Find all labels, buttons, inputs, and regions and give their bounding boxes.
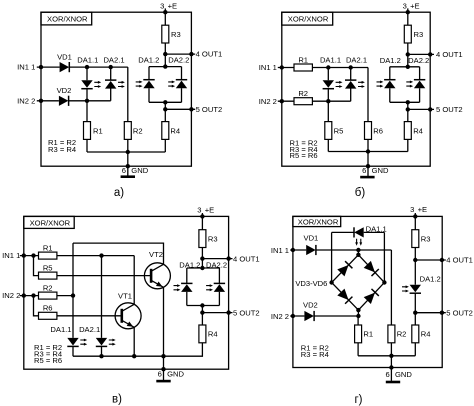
svg-text:5 OUT2: 5 OUT2 — [436, 105, 463, 114]
svg-text:R4: R4 — [208, 330, 218, 339]
wire bridge edges g — [332, 255, 385, 310]
svg-text:GND: GND — [372, 166, 389, 175]
photodiode DA1.2 — [143, 80, 154, 89]
wire DA1.1 right drop g — [383, 232, 385, 282]
svg-text:DA1.2: DA1.2 — [420, 275, 441, 284]
svg-text:R3: R3 — [171, 30, 181, 39]
svg-text:VD1: VD1 — [304, 234, 319, 243]
node dots g — [413, 214, 417, 218]
svg-text:IN2 2: IN2 2 — [2, 291, 20, 300]
diode DA2.1 — [105, 80, 116, 89]
wire R6 branch from IN2 v — [34, 296, 39, 316]
resistor R3 — [162, 25, 169, 43]
wire OUT1 row pin 4 — [165, 53, 195, 55]
wire IN1 row — [37, 66, 128, 68]
wire ground bus b — [328, 151, 408, 153]
wire R1 from VD2 row g — [357, 316, 359, 325]
wire R2 drop g — [390, 250, 392, 325]
wire VT2 collector top link v — [73, 243, 164, 264]
wire bus to GND pin 6 v — [163, 356, 165, 380]
wire bus to GND pin 6 — [127, 152, 129, 176]
arrows DA2.2 v — [206, 284, 213, 291]
svg-text:XOR/XNOR: XOR/XNOR — [298, 217, 339, 226]
wire R4 to bus — [164, 139, 166, 152]
svg-text:IN1 1: IN1 1 — [17, 63, 35, 72]
wire R4 to bus g — [414, 343, 416, 356]
wire OUT1 node to group top v — [201, 259, 203, 268]
svg-text:DA1.1: DA1.1 — [320, 56, 341, 65]
photodiode DA2.2 v — [214, 283, 225, 292]
node dots v — [200, 214, 204, 218]
svg-text:R3 = R4: R3 = R4 — [48, 145, 76, 154]
svg-text:DA2.1: DA2.1 — [79, 325, 100, 334]
svg-text:IN1 1: IN1 1 — [2, 251, 20, 260]
wire OUT1 row pin 4 v — [202, 258, 232, 260]
diode VD2 — [59, 96, 69, 106]
node dots a — [163, 10, 167, 14]
svg-text:VD1: VD1 — [57, 53, 72, 62]
bridge diode VD6 — [364, 289, 379, 304]
wire bridge bottom stub g — [357, 310, 359, 316]
svg-text:R2: R2 — [397, 330, 407, 339]
wire R2 from IN1 row — [127, 67, 129, 122]
wire OUT1 row pin 4 b — [408, 53, 434, 55]
wire DA1.1 left drop g — [331, 232, 333, 282]
svg-text:4 OUT1: 4 OUT1 — [233, 254, 260, 263]
svg-text:R5: R5 — [334, 126, 344, 135]
svg-text:DA2.2: DA2.2 — [168, 55, 189, 64]
wire bus to GND pin 6 b — [367, 152, 369, 177]
resistor R1 v — [39, 252, 57, 259]
wire DA1.2 branch bottom — [148, 88, 150, 102]
svg-text:R5 = R6: R5 = R6 — [290, 151, 318, 160]
wire IN2 row — [37, 100, 111, 102]
wire R3 to OUT1 node g — [414, 248, 416, 261]
resistor R4 v — [199, 325, 206, 343]
wire DA2.1 column v — [101, 256, 103, 357]
wire IN2 row with VD2 g — [290, 315, 358, 317]
resistor R6 b — [365, 122, 372, 140]
wire OUT2 row pin 5 g — [415, 312, 446, 314]
LED DA2.1 v — [96, 338, 107, 347]
wire OUT2 to R4 v — [201, 313, 203, 325]
resistor R3 v — [199, 230, 206, 248]
wire R5 to bus b — [327, 139, 329, 151]
LED DA1.1 b — [323, 80, 334, 89]
arrows DA1.1 b — [336, 81, 343, 88]
LED DA1.1 v — [67, 338, 78, 347]
svg-text:R4: R4 — [170, 126, 180, 135]
wire +E pin 3 stub — [164, 8, 166, 12]
svg-text:6: 6 — [385, 370, 389, 379]
svg-text:3: 3 — [410, 205, 414, 214]
svg-text:DA1.1: DA1.1 — [366, 224, 387, 233]
wire DA1.2 branch b — [389, 67, 391, 103]
wire DA1.2 to OUT2 g — [414, 293, 416, 313]
arrows DA2.2 — [168, 81, 175, 88]
wire DA2.2 branch v — [218, 268, 220, 306]
wire ground bus g — [358, 355, 415, 357]
bridge diode VD5 — [337, 289, 352, 304]
svg-text:R1: R1 — [43, 244, 53, 253]
arrows DA2.1 — [118, 81, 125, 88]
svg-text:GND: GND — [395, 370, 412, 379]
svg-text:R3 = R4: R3 = R4 — [301, 350, 329, 359]
wire OUT1 node to group top b — [407, 54, 409, 66]
XOR/XNOR label box g — [293, 216, 341, 226]
wire group bottom bar — [149, 101, 182, 103]
svg-text:+E: +E — [410, 1, 420, 10]
wire OUT2 row pin 5 b — [408, 108, 434, 110]
svg-text:R6: R6 — [373, 126, 383, 135]
svg-text:XOR/XNOR: XOR/XNOR — [288, 15, 329, 24]
svg-text:R2: R2 — [43, 284, 53, 293]
ground symbol b — [360, 176, 374, 179]
svg-text:3: 3 — [403, 1, 407, 10]
svg-text:VD3-VD6: VD3-VD6 — [295, 279, 327, 288]
svg-text:VT2: VT2 — [149, 250, 163, 259]
resistor R2 v — [39, 292, 57, 299]
wire R4 to bus v — [164, 343, 203, 356]
diode VD1 g — [306, 245, 316, 255]
wire OUT2 row pin 5 — [165, 108, 195, 110]
IC outline box U-b — [282, 12, 430, 166]
svg-text:4 OUT1: 4 OUT1 — [446, 256, 473, 265]
wire OUT1 to DA1.2 g — [414, 260, 416, 285]
wire VT1 collector to R1 row v — [133, 256, 135, 305]
svg-text:4 OUT1: 4 OUT1 — [436, 50, 463, 59]
resistor R4 g — [412, 325, 419, 343]
arrows DA1.2 b — [377, 81, 384, 88]
svg-text:R3: R3 — [208, 234, 218, 243]
wire group bottom bar v — [187, 305, 220, 307]
resistor R2 b — [294, 98, 312, 105]
ground symbol — [121, 175, 135, 178]
svg-text:VT1: VT1 — [118, 292, 132, 301]
node dots b — [406, 10, 410, 14]
svg-text:IN2 2: IN2 2 — [17, 96, 35, 105]
svg-text:+E: +E — [418, 205, 428, 214]
wire R4 to bus b — [407, 139, 409, 151]
svg-text:3: 3 — [197, 205, 201, 214]
svg-text:DA1.1: DA1.1 — [77, 55, 98, 64]
ground symbol g — [386, 381, 400, 384]
bridge diode VD3 — [337, 261, 352, 276]
resistor R3 b — [404, 25, 411, 43]
svg-text:4 OUT1: 4 OUT1 — [196, 50, 223, 59]
svg-text:DA1.2: DA1.2 — [380, 56, 401, 65]
IC outline box U-g — [293, 216, 442, 367]
wire R6 to VT1 base v — [57, 315, 122, 317]
wire R6 from IN1 row b — [367, 68, 369, 122]
svg-text:DA2.2: DA2.2 — [408, 56, 429, 65]
resistor R2 g — [388, 325, 395, 343]
ground symbol v — [156, 380, 170, 383]
svg-text:R3: R3 — [414, 30, 424, 39]
wire DA1.1 branch b — [327, 68, 329, 122]
wire bus to GND pin 6 g — [390, 356, 392, 381]
wire DA2.2 branch b — [419, 67, 421, 103]
svg-text:GND: GND — [167, 370, 184, 379]
wire group to OUT2 node — [164, 102, 166, 109]
wire +E pin 3 stub b — [407, 8, 409, 25]
svg-text:R4: R4 — [421, 330, 431, 339]
IC outline box U-a — [41, 12, 191, 166]
arrows DA2.2 b — [406, 81, 413, 88]
photodiode DA2.2 b — [414, 80, 425, 89]
XOR/XNOR label box — [41, 12, 92, 25]
resistor R3 g — [412, 230, 419, 248]
wire DA2.1 branch b — [350, 68, 352, 102]
svg-text:6: 6 — [122, 166, 126, 175]
wire IN2 row b — [278, 100, 351, 102]
wire R5 to VT2 base v — [57, 275, 151, 277]
wire OUT2 row pin 5 v — [202, 312, 232, 314]
diode VD2 g — [304, 311, 314, 321]
resistor R4 b — [404, 122, 411, 140]
svg-text:5 OUT2: 5 OUT2 — [446, 308, 473, 317]
wire IN2 row v — [20, 295, 73, 297]
wire group bottom bar b — [390, 101, 420, 103]
wire +E pin 3 stub g — [414, 213, 416, 230]
svg-text:IN1 1: IN1 1 — [259, 63, 277, 72]
svg-text:а): а) — [114, 187, 124, 199]
arrows DA1.2 — [136, 81, 143, 88]
wire OUT2 to R4 g — [414, 313, 416, 325]
svg-text:IN2 2: IN2 2 — [259, 97, 277, 106]
resistor R4 — [162, 122, 169, 140]
wire group top bar — [149, 66, 182, 68]
wire R1 to bus g — [357, 343, 359, 356]
svg-text:R1: R1 — [363, 330, 373, 339]
arrows DA1.1 — [94, 81, 101, 88]
svg-text:6: 6 — [158, 370, 162, 379]
wire VT2 emitter to bus v — [163, 287, 165, 356]
photodiode DA2.2 — [176, 80, 187, 89]
arrows DA1.1 v — [80, 339, 87, 346]
resistor R5 v — [39, 272, 57, 279]
wire DA2.1 branch — [110, 67, 112, 101]
diode DA2.1 b — [345, 80, 356, 89]
wire R3 to OUT1 node b — [407, 43, 409, 54]
wire IN1 row with VD1 g — [290, 249, 391, 251]
svg-text:+E: +E — [168, 1, 178, 10]
transistor VT2 — [144, 263, 170, 289]
wire DA1.2 branch v — [186, 268, 188, 306]
svg-text:R5 = R6: R5 = R6 — [34, 356, 62, 365]
svg-text:б): б) — [355, 187, 366, 199]
svg-text:R2: R2 — [133, 126, 143, 135]
wire OUT2 to R4 — [164, 109, 166, 121]
XOR/XNOR label box b — [282, 12, 333, 25]
svg-text:XOR/XNOR: XOR/XNOR — [47, 15, 88, 24]
svg-text:IN1 1: IN1 1 — [271, 246, 289, 255]
resistor R1 b — [294, 64, 312, 71]
wire R5 branch from IN1 v — [34, 256, 39, 276]
svg-text:R1: R1 — [93, 126, 103, 135]
svg-text:г): г) — [354, 394, 362, 406]
svg-text:DA2.1: DA2.1 — [346, 56, 367, 65]
wire OUT2 to R4 b — [407, 109, 409, 121]
svg-text:+E: +E — [205, 205, 215, 214]
wire group top bar v — [187, 267, 220, 269]
wire OUT1 row pin 4 g — [415, 259, 446, 261]
wire R1 to bus — [86, 139, 88, 152]
wire R2 to bus g — [390, 343, 392, 356]
svg-text:DA1.2: DA1.2 — [138, 55, 159, 64]
svg-text:R2: R2 — [298, 89, 308, 98]
svg-text:GND: GND — [131, 166, 148, 175]
diode VD1 — [60, 62, 70, 72]
svg-text:R5: R5 — [43, 264, 53, 273]
wire R3 to OUT1 node v — [201, 248, 203, 259]
wire R2 to bus — [127, 139, 129, 152]
wire +E to R3 — [164, 12, 166, 25]
resistor R5 b — [325, 122, 332, 140]
wire DA1.2 branch top — [148, 67, 150, 80]
svg-text:R3: R3 — [421, 234, 431, 243]
LED DA1.1 — [81, 80, 92, 89]
svg-text:5 OUT2: 5 OUT2 — [233, 308, 260, 317]
resistor R1 — [84, 122, 91, 140]
svg-text:3: 3 — [160, 1, 164, 10]
wire bridge top stub g — [357, 250, 359, 255]
wire DA2.2 branch bottom — [181, 88, 183, 102]
arrows DA2.1 v — [109, 339, 116, 346]
LED DA1.1 g — [354, 227, 364, 237]
wire group to OUT2 node b — [407, 102, 409, 109]
IC outline box U-v — [24, 216, 229, 369]
wire VT1 emitter to bus v — [133, 327, 135, 356]
resistor R1 g — [355, 325, 362, 343]
wire OUT1 node to group top — [164, 54, 166, 67]
arrows DA1.1 down g — [355, 239, 362, 246]
arrows DA1.2 v — [174, 284, 181, 291]
XOR/XNOR label box v — [24, 216, 74, 228]
svg-text:VD2: VD2 — [57, 86, 72, 95]
wire DA1.1 branch — [86, 67, 88, 122]
svg-text:R6: R6 — [43, 304, 53, 313]
svg-text:VD2: VD2 — [303, 300, 318, 309]
photodiode DA1.2 b — [384, 80, 395, 89]
photodiode DA1.2 v — [181, 283, 192, 292]
wire group top bar b — [390, 66, 420, 68]
wire IN1 row b — [278, 67, 368, 69]
svg-text:DA1.2: DA1.2 — [179, 260, 200, 269]
svg-text:5 OUT2: 5 OUT2 — [196, 105, 223, 114]
wire ground bus v — [73, 355, 164, 357]
photodiode DA1.2 g — [410, 285, 421, 294]
wire R3 to OUT1 node — [164, 43, 166, 54]
bridge diode VD4 — [364, 261, 379, 276]
wire DA1.1 column v — [72, 243, 74, 356]
wire DA2.2 branch top — [181, 67, 183, 80]
resistor R6 v — [39, 312, 57, 319]
wire R6 to bus b — [367, 139, 369, 151]
svg-text:R4: R4 — [413, 126, 423, 135]
wire DA1.1 loop top g — [332, 231, 385, 233]
wire +E pin 3 stub v — [201, 213, 203, 230]
svg-text:в): в) — [112, 394, 122, 406]
svg-text:DA2.1: DA2.1 — [103, 55, 124, 64]
svg-text:DA2.2: DA2.2 — [206, 260, 227, 269]
svg-text:6: 6 — [362, 166, 366, 175]
svg-text:R1: R1 — [298, 55, 308, 64]
svg-text:DA1.1: DA1.1 — [50, 325, 71, 334]
arrows DA1.2 g — [402, 285, 409, 292]
wire IN1 row v — [20, 255, 134, 257]
svg-text:IN2 2: IN2 2 — [271, 312, 289, 321]
arrows DA2.1 b — [358, 81, 365, 88]
wire ground bus — [87, 151, 165, 153]
transistor VT1 — [115, 303, 141, 329]
wire group to OUT2 node v — [201, 306, 203, 313]
svg-text:XOR/XNOR: XOR/XNOR — [30, 219, 71, 228]
resistor R2 — [124, 122, 131, 140]
